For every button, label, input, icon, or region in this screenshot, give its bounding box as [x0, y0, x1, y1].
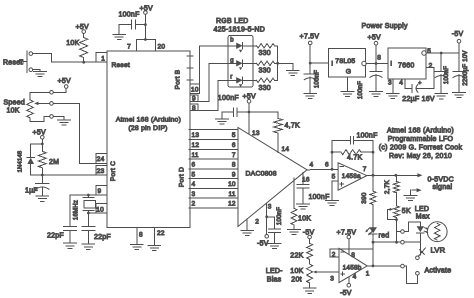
resistor 10K pullup: [66, 38, 87, 63]
svg-text:3: 3: [268, 204, 272, 211]
svg-text:9: 9: [232, 171, 236, 178]
svg-text:6: 6: [325, 161, 329, 168]
label 425-1819-5-ND: [214, 27, 266, 34]
svg-text:2M: 2M: [49, 159, 59, 166]
wire to 7660 pin8: [376, 55, 388, 64]
svg-text:22pF: 22pF: [47, 232, 64, 239]
-5V terminal (bias): [303, 229, 315, 243]
capacitor 22pF left: [47, 195, 77, 243]
svg-text:16MHz: 16MHz: [74, 200, 80, 220]
wire 1458b pin3: [317, 272, 339, 283]
svg-text:I: I: [331, 60, 333, 67]
pin 10 stub (PB2): [190, 46, 199, 94]
title block: [379, 128, 463, 160]
svg-text:100nF: 100nF: [218, 95, 239, 102]
wire DAC out to opamp: [307, 161, 338, 170]
svg-text:red: red: [379, 233, 390, 240]
svg-text:DAC0808: DAC0808: [246, 170, 277, 177]
svg-text:10K: 10K: [290, 268, 303, 275]
capacitor 100nF (supply in): [304, 63, 320, 93]
svg-text:22: 22: [157, 230, 165, 237]
svg-text:Port D: Port D: [179, 167, 186, 187]
svg-text:(28 pin DIP): (28 pin DIP): [128, 125, 167, 132]
LED (vactrol): [417, 226, 429, 255]
ground (22pF right): [82, 244, 95, 249]
1458b output: [366, 264, 407, 277]
svg-text:2: 2: [429, 63, 433, 70]
svg-text:signal: signal: [433, 184, 453, 191]
svg-text:330: 330: [259, 68, 271, 75]
svg-text:24: 24: [97, 156, 105, 163]
svg-text:Reset: Reset: [112, 62, 130, 69]
svg-text:10: 10: [96, 206, 104, 213]
svg-text:100nF: 100nF: [357, 133, 378, 140]
ground (DAC pin3 cap): [268, 243, 281, 248]
signal output arrow: [414, 173, 422, 177]
svg-text:100nF: 100nF: [358, 81, 364, 99]
svg-text:7: 7: [232, 152, 236, 159]
LED r: [218, 74, 256, 87]
resistor 330 (r): [257, 78, 278, 92]
wire bottom bus: [373, 240, 420, 244]
ground (supply out cap): [370, 91, 383, 96]
svg-text:13: 13: [252, 130, 260, 137]
pin 24 stub: [96, 154, 107, 164]
+5V terminal (2M): [33, 129, 46, 145]
svg-text:LVR: LVR: [431, 246, 446, 255]
svg-text:5: 5: [332, 173, 336, 180]
ground (DAC comp cap): [297, 204, 310, 209]
diode D1 1N4148: [18, 144, 43, 175]
capacitor 1uF: [25, 175, 49, 196]
wire to vactrol LED: [397, 222, 421, 233]
svg-text:20t: 20t: [291, 276, 301, 283]
svg-text:10: 10: [191, 87, 199, 94]
DAC U3 DAC0808 body: [238, 128, 307, 227]
ground (78L05): [341, 77, 354, 97]
svg-text:3: 3: [192, 191, 196, 198]
svg-text:Speed: Speed: [4, 99, 26, 106]
svg-text:Programmable LFO: Programmable LFO: [388, 136, 454, 143]
ground (pin 22): [148, 246, 161, 251]
wire DAC pin3 node: [265, 204, 271, 235]
svg-text:7: 7: [363, 166, 367, 173]
7660 pin3 ground: [388, 79, 393, 93]
capacitor 100nF (-5V): [435, 53, 450, 94]
switch Activate: [416, 248, 452, 275]
ground (IC decoupling cap): [113, 25, 126, 40]
svg-text:LED: LED: [415, 206, 429, 213]
wire activate bottom: [407, 266, 418, 283]
IC U1 Atmel 168 body: [107, 51, 190, 228]
feedback wire (1458b): [330, 249, 373, 258]
svg-text:4: 4: [399, 79, 403, 86]
IC label Reset: [112, 62, 130, 69]
svg-text:100nF: 100nF: [444, 66, 450, 84]
wire pin10 row: [87, 212, 96, 215]
ground (DAC pin2): [241, 231, 254, 236]
svg-text:Bias: Bias: [267, 276, 282, 283]
svg-text:100nF: 100nF: [315, 70, 321, 88]
svg-text:78L05: 78L05: [335, 58, 355, 65]
unused Port B ticks: [187, 56, 193, 80]
svg-text:5: 5: [427, 48, 431, 55]
svg-text:6: 6: [192, 162, 196, 169]
ground (supply in cap): [304, 93, 317, 98]
svg-text:I: I: [390, 61, 392, 68]
potentiometer 5K LED Max: [388, 206, 430, 242]
svg-text:8: 8: [377, 55, 381, 62]
svg-text:G: G: [346, 69, 352, 76]
junction reset/10K/pin1: [82, 61, 85, 64]
-5V terminal (1458b pin4): [340, 274, 357, 297]
svg-text:425-1819-5-ND: 425-1819-5-ND: [214, 27, 266, 34]
svg-text:1µF: 1µF: [25, 187, 38, 194]
svg-text:100nF: 100nF: [119, 11, 140, 18]
label RGB LED: [216, 18, 248, 25]
ground (7660 pin3): [387, 93, 400, 98]
wire pin13: [249, 112, 260, 137]
svg-text:2: 2: [192, 201, 196, 208]
svg-text:+5V: +5V: [368, 34, 381, 41]
pin 10 stub: [96, 204, 107, 214]
svg-text:+: +: [418, 80, 421, 86]
svg-text:20: 20: [158, 43, 166, 50]
svg-text:(c) 2009 G. Forrest Cook: (c) 2009 G. Forrest Cook: [379, 144, 463, 151]
IC 7660 body: [388, 48, 426, 79]
wire reset to pin1: [33, 54, 96, 63]
ground (22pF left): [64, 243, 77, 248]
svg-text:10: 10: [228, 181, 236, 188]
wire pot top: [30, 92, 50, 100]
svg-text:-5V: -5V: [452, 31, 464, 38]
svg-text:1458a: 1458a: [342, 173, 361, 180]
ground (1458a pin5): [326, 201, 339, 206]
svg-text:2: 2: [255, 219, 259, 226]
svg-text:8: 8: [232, 162, 236, 169]
svg-text:+5V: +5V: [58, 78, 71, 85]
svg-text:11: 11: [229, 191, 236, 198]
svg-text:13: 13: [192, 132, 200, 139]
7660 pin2 wire: [416, 63, 434, 89]
resistor 4.7K (DAC ref): [249, 112, 300, 153]
label Power Supply: [362, 23, 408, 30]
pin 23 stub: [96, 165, 107, 175]
svg-text:1N4148: 1N4148: [18, 151, 24, 173]
RGB LED box: [228, 36, 253, 88]
svg-text:10K: 10K: [298, 215, 311, 222]
crystal 16MHz: [74, 195, 96, 220]
resistor 10K (DAC pin15): [291, 178, 311, 229]
ground (reset switch): [33, 70, 46, 77]
pin 1 stub: [96, 53, 107, 63]
pin 22 stub (GND): [154, 228, 164, 245]
wire DAC pin16: [302, 173, 310, 185]
LED b: [199, 38, 256, 53]
resistor 2.7K: [384, 175, 400, 206]
svg-text:5K: 5K: [402, 208, 411, 215]
svg-text:+5V: +5V: [33, 129, 46, 136]
ground (2200uF): [453, 92, 466, 97]
svg-text:3: 3: [330, 276, 334, 283]
feedback resistor 4.7K (1458a): [331, 150, 375, 162]
resistor 330 (b): [257, 44, 278, 57]
capacitor 22pF right: [82, 213, 111, 244]
svg-text:100nF: 100nF: [309, 194, 330, 201]
svg-text:0-5VDC: 0-5VDC: [428, 177, 454, 184]
resistor 330 (g): [257, 61, 278, 74]
svg-text:+7.5V: +7.5V: [300, 33, 320, 40]
label 0-5VDC signal: [428, 177, 454, 191]
resistor 22K: [290, 243, 312, 264]
IC label Atmel 168 (Arduino): [116, 117, 181, 124]
junction red LED bus: [372, 241, 375, 267]
ground (100nF -5V): [435, 94, 448, 99]
svg-text:14: 14: [282, 146, 290, 153]
+7.5V terminal (1458b pin8): [337, 229, 357, 259]
IC label Port C: [110, 161, 117, 181]
svg-text:Port C: Port C: [110, 161, 117, 181]
svg-text:LED-: LED-: [266, 268, 283, 275]
wire 1458a pin5 to ground: [332, 173, 339, 200]
signal ground arrow: [404, 188, 421, 200]
svg-text:22K: 22K: [290, 253, 303, 260]
svg-text:1: 1: [366, 270, 370, 277]
resistor 390: [361, 175, 376, 227]
wire pot wiper to pin24: [53, 103, 96, 163]
svg-text:8: 8: [139, 232, 143, 239]
op-amp U2a 1458a: [338, 163, 367, 190]
svg-text:4: 4: [310, 162, 314, 169]
LVR photocell: [427, 222, 447, 255]
svg-text:5: 5: [232, 132, 236, 139]
ground (bias pot): [303, 288, 316, 293]
op-amp U2b 1458b: [339, 248, 367, 282]
pin 9 stub (PB1): [190, 63, 209, 102]
svg-text:Rev: May 26, 2010: Rev: May 26, 2010: [389, 153, 452, 160]
svg-text:100nF: 100nF: [277, 207, 283, 225]
svg-text:10K: 10K: [7, 107, 20, 114]
ground (DAC vcc cap): [216, 119, 229, 124]
svg-text:Atmel 168 (Arduino): Atmel 168 (Arduino): [116, 117, 181, 124]
+5V terminal (IC supply): [140, 5, 153, 39]
7660 pin4 wire: [399, 79, 412, 88]
IC power bump pins 7 20: [127, 38, 165, 50]
+7.5V terminal (supply in): [300, 33, 329, 64]
svg-text:Activate: Activate: [425, 268, 452, 275]
Port D / DAC pin numbers: [192, 132, 236, 208]
pin 8 stub (PB0): [190, 80, 218, 112]
wire DAC pin2 to ground: [247, 219, 259, 231]
ground (pin 8): [131, 245, 144, 250]
IC label Port B: [175, 69, 182, 89]
svg-text:12: 12: [228, 201, 236, 208]
svg-text:2200µF 10V: 2200µF 10V: [463, 50, 469, 85]
capacitor 2200uF 10V: [453, 50, 469, 92]
svg-text:4: 4: [353, 274, 357, 281]
+5V terminal (reset pullup): [76, 24, 89, 38]
wire 330 common: [276, 46, 279, 81]
capacitor 22uF 16V: [402, 80, 435, 103]
svg-text:1458b: 1458b: [343, 264, 362, 271]
capacitor 100nF (IC decoupling): [119, 11, 147, 29]
wire pot bottom: [30, 116, 50, 121]
svg-text:2: 2: [332, 251, 336, 258]
capacitor 100nF (supply out): [358, 64, 382, 100]
svg-text:390: 390: [361, 192, 368, 204]
svg-text:-5V: -5V: [257, 241, 269, 248]
svg-text:r: r: [230, 74, 232, 80]
wire feedback right: [372, 140, 374, 175]
svg-text:b: b: [230, 38, 234, 44]
svg-text:5: 5: [192, 171, 196, 178]
capacitor 100nF (DAC vcc): [222, 108, 249, 119]
+5V terminal (DAC ref): [218, 93, 256, 113]
1458a output: [363, 166, 417, 177]
svg-text:12: 12: [192, 142, 200, 149]
svg-text:16: 16: [302, 176, 310, 183]
LED g: [209, 58, 257, 70]
feedback capacitor 100nF (1458a): [332, 133, 378, 170]
ground (1uF): [36, 196, 49, 201]
svg-text:9: 9: [98, 188, 102, 195]
svg-text:4.7K: 4.7K: [347, 155, 362, 162]
svg-text:11: 11: [192, 152, 199, 159]
Port D bus ladder: [189, 130, 238, 208]
-5V terminal (supply): [452, 31, 464, 53]
ground (speed pot): [53, 116, 70, 125]
svg-text:7660: 7660: [398, 63, 415, 70]
junction 2M/diode/1uF node: [31, 174, 44, 177]
wire node to pin23: [42, 174, 96, 176]
svg-text:-5V: -5V: [340, 290, 352, 297]
svg-text:4: 4: [192, 181, 196, 188]
svg-text:Port B: Port B: [175, 69, 182, 89]
svg-text:1: 1: [101, 55, 105, 62]
wire pin9 row: [70, 194, 96, 197]
speed pot connector circles: [50, 91, 54, 119]
svg-text:Max: Max: [416, 213, 430, 220]
svg-text:RGB LED: RGB LED: [216, 18, 248, 25]
pushbutton Reset switch: [3, 51, 33, 72]
svg-text:3: 3: [388, 79, 392, 86]
pin 9 stub: [96, 186, 107, 195]
+5V terminal (speed pot): [53, 78, 71, 92]
svg-text:10K: 10K: [66, 40, 79, 47]
7660 pin5 out: [426, 48, 459, 55]
IC label Port D: [179, 167, 186, 187]
svg-text:22pF: 22pF: [94, 234, 111, 241]
svg-text:8: 8: [351, 252, 355, 259]
pin 8 stub (GND): [137, 228, 143, 244]
svg-text:23: 23: [97, 168, 105, 175]
ground (10K): [288, 229, 301, 234]
svg-text:4,7K: 4,7K: [285, 123, 300, 130]
svg-text:22µF 16V: 22µF 16V: [402, 96, 435, 103]
LED red: [365, 227, 389, 266]
potentiometer Speed 10K: [4, 99, 50, 118]
svg-text:+7.5V: +7.5V: [337, 229, 357, 236]
-5V terminal (DAC pin3): [257, 235, 269, 248]
resistor 2M: [38, 144, 59, 175]
svg-text:330: 330: [259, 50, 271, 57]
ground (RGB LEDs): [278, 63, 299, 75]
svg-text:2,7K: 2,7K: [384, 179, 391, 194]
capacitor 100nF (DAC comp): [297, 184, 330, 204]
svg-text:6: 6: [232, 142, 236, 149]
potentiometer 10K 20t LED Bias: [266, 264, 317, 288]
IC label (28 pin DIP): [128, 125, 167, 132]
svg-text:Power Supply: Power Supply: [362, 23, 408, 30]
svg-text:330: 330: [259, 85, 271, 92]
svg-text:7: 7: [127, 43, 131, 50]
svg-text:Atmel 168 (Arduino): Atmel 168 (Arduino): [387, 128, 454, 135]
svg-text:9: 9: [192, 96, 196, 103]
regulator 78L05: [329, 49, 367, 78]
+5V terminal (supply out): [366, 34, 381, 65]
capacitor 100nF (DAC pin3): [267, 207, 283, 244]
